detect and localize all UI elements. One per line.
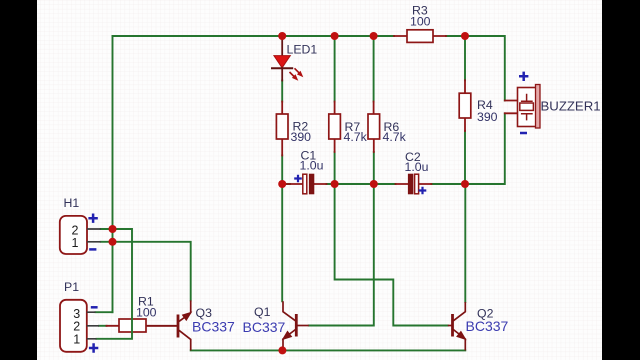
resistor R4 pins	[464, 80, 466, 131]
resistor R3 pins	[394, 35, 446, 37]
wire top rail right of R3 to buzzer plus drop	[446, 36, 505, 101]
capacitor C2 pins	[396, 183, 432, 185]
wire top rail	[113, 35, 395, 37]
wire P1 pin3 to left vertical	[96, 311, 113, 313]
svg-text:100: 100	[410, 15, 431, 29]
node R7 top	[331, 32, 339, 40]
buzzer element	[520, 103, 534, 110]
buzzer pins	[505, 101, 518, 114]
wire LED column segments	[281, 81, 283, 302]
wire bottom rail	[191, 349, 466, 351]
svg-text:P1: P1	[64, 280, 79, 294]
buzzer bottom plate	[521, 114, 533, 121]
svg-text:Q1: Q1	[254, 305, 271, 319]
resistor R7 body	[329, 114, 341, 139]
svg-text:390: 390	[477, 110, 498, 124]
wire H1 pin2 to P1 pin1	[97, 229, 133, 339]
wire C row middle green	[335, 183, 465, 185]
transistor Q1	[283, 301, 309, 350]
connector P1 body	[60, 300, 87, 352]
capacitor C1 plates	[303, 174, 307, 194]
wire R7 column	[334, 36, 336, 184]
buzzer top plate	[521, 94, 533, 101]
capacitor C1 pins	[282, 183, 326, 185]
LED1 triangle	[274, 56, 290, 68]
wire through R1 (H1 pin2 to P1 pin1 vertical)	[131, 318, 133, 334]
svg-text:1.0u: 1.0u	[405, 160, 429, 174]
node R4 top	[461, 32, 469, 40]
svg-text:BC337: BC337	[192, 319, 235, 335]
svg-text:1: 1	[72, 236, 79, 250]
wire cross coupling R7 node to Q2 base	[335, 184, 448, 326]
LED1 light arrows	[290, 68, 304, 80]
node C1 left	[278, 180, 286, 188]
connector H1 polarity marks	[88, 214, 97, 223]
svg-text:BC337: BC337	[243, 319, 286, 335]
wire Q2 collector	[464, 184, 466, 302]
wire C row to buzzer minus	[465, 113, 505, 184]
svg-text:390: 390	[291, 130, 312, 144]
node LED top	[278, 32, 286, 40]
transistor Q2	[448, 302, 466, 350]
node Q1 emitter	[278, 346, 286, 354]
svg-text:BC337: BC337	[466, 318, 509, 334]
svg-text:H1: H1	[64, 196, 80, 210]
wire H1 pin1 to Q3 emitter	[101, 242, 191, 301]
buzzer polarity marks	[519, 72, 528, 81]
resistor R6 body	[368, 114, 380, 139]
resistor R2 body	[276, 114, 288, 139]
svg-text:1: 1	[73, 333, 80, 347]
wire P1 pin2 to R1	[99, 325, 107, 327]
svg-text:LED1: LED1	[287, 43, 318, 57]
connector P1 polarity marks	[91, 306, 98, 309]
node C2 left	[370, 180, 378, 188]
svg-text:1.0u: 1.0u	[300, 159, 324, 173]
buzzer right bar	[536, 85, 541, 129]
wire cross coupling R6 node to Q1 base	[309, 184, 374, 326]
svg-text:BUZZER1: BUZZER1	[541, 99, 601, 114]
wire R6 column	[373, 36, 375, 184]
resistor R3 body	[407, 30, 433, 43]
LED1 cathode bar	[271, 67, 293, 69]
svg-text:4.7k: 4.7k	[383, 130, 407, 144]
resistor R1 body	[119, 319, 146, 332]
wire R4 column	[464, 36, 466, 184]
node C2 right	[461, 180, 469, 188]
capacitor C2 plates	[408, 174, 412, 194]
connector P1 pins	[87, 312, 99, 339]
resistor R1 pins	[107, 325, 177, 327]
capacitor C1 plus	[294, 175, 302, 183]
node H1 pin2	[109, 225, 117, 233]
connector H1 body	[60, 216, 87, 254]
resistor R7 pins	[334, 102, 336, 153]
wire C row left green	[282, 183, 334, 185]
node H1 pin1	[109, 238, 117, 246]
LED1 anode pin	[281, 36, 283, 56]
node R6 top	[370, 32, 378, 40]
transistor Q3	[147, 300, 191, 350]
resistor R2 pins	[281, 102, 283, 156]
resistor R6 pins	[373, 102, 375, 153]
capacitor C2 plus	[419, 187, 427, 195]
resistor R4 body	[459, 93, 471, 118]
connector H1 pins	[87, 229, 101, 242]
buzzer BUZZER1 body	[518, 88, 537, 127]
svg-text:4.7k: 4.7k	[344, 130, 368, 144]
node C1 right	[331, 180, 339, 188]
LED1 cathode pin	[281, 68, 283, 81]
wire left vertical	[112, 36, 114, 312]
svg-text:100: 100	[136, 306, 157, 320]
